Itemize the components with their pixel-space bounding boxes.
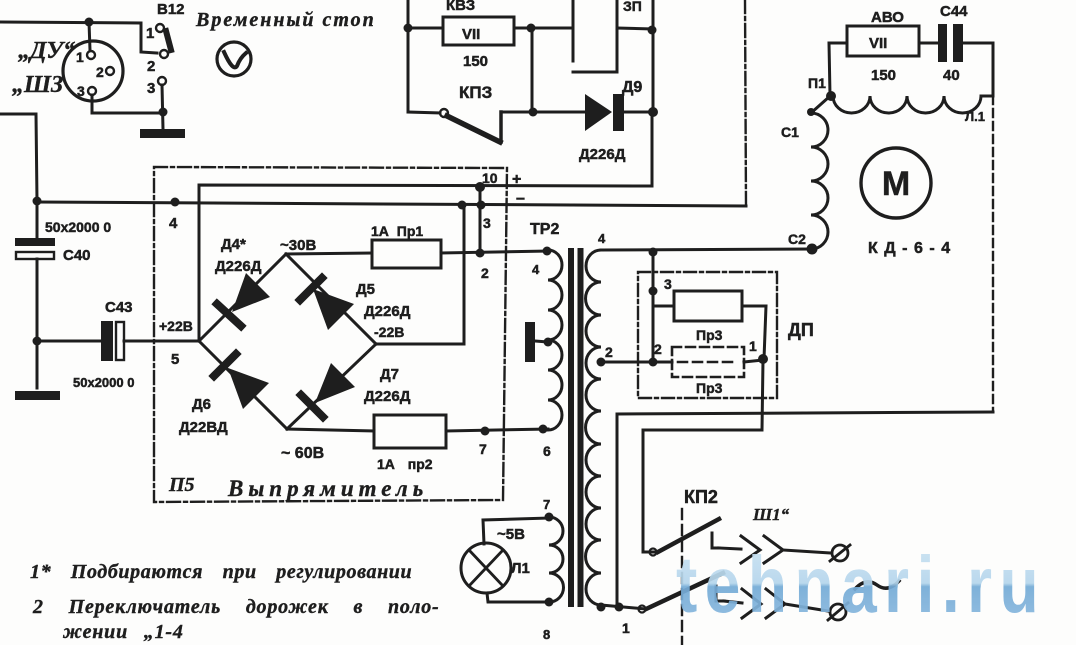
svg-text:КПЗ: КПЗ [459,83,492,102]
node A junction on top wire [85,18,94,27]
wire C43 left lead [37,340,101,343]
svg-text:1А пр2: 1А пр2 [377,456,433,472]
terminal 3 dot right [477,201,486,210]
wire terminal link 10-3-2 [479,187,482,253]
wire KV3 node down to switch KP3 [531,28,534,112]
svg-text:П1: П1 [808,75,826,91]
resistor KV3 left vertical [407,0,410,112]
motor M [861,148,931,218]
svg-text:tehnari.ru: tehnari.ru [676,540,1046,629]
node bottom wire junction [615,603,624,612]
svg-text:2: 2 [605,344,613,360]
svg-text:ЗП: ЗП [623,0,642,14]
wire fuse Pr2 to pin 6 [446,429,548,431]
transformer pin6 dot [539,425,548,434]
fuse Pr2 [374,415,446,448]
diode D9 [585,94,624,131]
svg-text:Д226Д: Д226Д [579,146,626,163]
node ground junction [159,108,168,117]
switch KP2 link dashed [681,509,683,645]
tap2 dot [597,358,606,367]
wire Sh1 upper to terminal [783,550,831,553]
capacitor C40 top plate [15,238,55,246]
capacitor C44 right plate [953,24,963,62]
ground bar C40 [15,391,60,400]
boundary dash line x745 [745,0,746,206]
svg-text:8: 8 [543,627,550,642]
terminal circle lower [830,604,846,620]
wire bridge bottom to fuse Pr2 [287,429,374,431]
svg-text:+: + [512,171,521,188]
wire KV3 left lead [408,27,443,30]
terminal 2 dot [476,249,485,258]
capacitor C43 left plate [101,321,113,361]
svg-text:40: 40 [943,67,960,84]
switch KP3 blade [447,116,500,142]
svg-text:КВЗ: КВЗ [446,0,475,14]
svg-text:В12: В12 [157,1,185,18]
terminal 10 dot [475,182,485,192]
resistor AVO [847,26,919,56]
switch KP3 contact [499,112,503,142]
svg-text:2 Переключатель дорожек в п: 2 Переключатель дорожек в поло- [32,596,440,618]
connector DU Sh3 body [63,41,123,101]
svg-text:~5В: ~5В [497,526,525,543]
svg-text:7: 7 [543,497,550,512]
bridge arm top-left [199,254,286,341]
node DP branch [649,248,658,257]
svg-text:3: 3 [77,83,85,99]
connector pin 1 [87,51,95,59]
solenoid ZP box [573,0,617,72]
svg-text:4: 4 [169,215,178,232]
transformer TR2 core right bar [578,248,584,607]
diode D6 [214,354,269,409]
svg-text:М: М [882,165,910,203]
transformer TR2 secondary winding [586,250,601,605]
switch KP2 upper pivot [650,549,657,556]
connector Sh1 lower arrows [742,589,785,618]
ground bar B12 [140,129,185,138]
node C1 top [807,108,815,116]
svg-text:Д5: Д5 [356,281,375,298]
svg-text:150: 150 [463,53,488,70]
motor winding C1-C2 vertical [811,113,828,249]
svg-text:Д226Д: Д226Д [364,303,411,320]
node pin1 [597,603,606,612]
fuse Pr1 [372,240,441,268]
svg-text:150: 150 [871,67,896,84]
wire terminal1 down to KP2 upper [643,360,763,552]
svg-text:2: 2 [147,58,155,75]
fuse Pr3 main [674,291,742,321]
svg-text:Д22ВД: Д22ВД [179,419,228,436]
switch B12 contact 3 [158,77,166,85]
svg-text:2: 2 [654,341,662,357]
wire A from C44 line to KP2 bottom [617,412,993,607]
svg-text:Ш1“: Ш1“ [752,505,790,524]
svg-text:С40: С40 [63,247,91,264]
svg-text:1: 1 [749,338,757,354]
panel DP dash-dot box [638,272,777,398]
wire pin7 to lamp [483,518,549,544]
node P1 [826,91,836,101]
wire fuse Pr3 to terminal 1 [742,306,766,359]
wire AVO to C44 [919,42,938,45]
wire screen to tap5 [535,341,548,342]
svg-text:4: 4 [598,231,606,246]
svg-text:КП2: КП2 [684,487,718,507]
node KV3 left [404,24,413,33]
svg-text:Д9: Д9 [622,79,642,96]
svg-text:жении „1-4: жении „1-4 [62,621,184,643]
svg-text:+22В: +22В [159,318,193,334]
switch B12 contact 1 [156,24,164,32]
switch KP2 lower pivot [639,606,646,613]
wire C44 to corner [963,43,993,96]
svg-text:Д6: Д6 [192,396,211,413]
lamp winding pin8 dot [545,598,554,607]
svg-text:50х2000 0: 50х2000 0 [45,219,111,235]
lamp winding pin7 dot [545,513,554,522]
wire connector pin3 to ground node [92,95,163,113]
wire plus bus from bridge left corner up and right [199,112,652,341]
wire fuse Pr1 to pin 4 [441,251,548,253]
wire top-left mains to B12 [0,22,157,53]
switch B12 contact 2 [160,50,168,58]
node KP3 right [529,108,538,117]
svg-text:АВО: АВО [871,9,904,26]
lamp L1 [461,543,511,593]
wire C43 right lead to bridge [124,340,199,343]
svg-text:Д7: Д7 [380,366,399,383]
svg-text:~30В: ~30В [280,237,316,254]
terminal 7 dot [481,427,490,436]
node C43 junction [33,337,42,346]
wire D9 to node [624,111,652,114]
svg-text:Д226Д: Д226Д [364,388,411,405]
wire DP vertical x653 [652,252,655,362]
switch B12 blade [166,31,171,50]
connector pin 3 [88,87,96,95]
capacitor C44 left plate [938,24,947,62]
svg-text:VII: VII [462,26,480,43]
svg-text:2: 2 [481,265,489,281]
clock symbol [217,42,251,76]
wire minus branch from bridge right corner [376,205,464,344]
svg-text:С2: С2 [788,231,806,247]
svg-text:ДП: ДП [788,320,814,340]
svg-text:Пр3: Пр3 [696,380,723,396]
svg-text:2: 2 [96,64,104,80]
wire ZP leads [617,28,652,29]
node D9 cathode [648,107,658,117]
fuse Pr3 spare dashed [672,347,744,377]
svg-text:10: 10 [482,170,498,186]
wire tap2 to spare fuse [601,361,672,364]
svg-text:VII: VII [869,35,887,52]
switch KP2 upper contact [712,533,719,548]
wire node A down to connector pin 1 [89,22,90,50]
svg-text:50х2000 0: 50х2000 0 [73,375,134,390]
bridge arm top-right [286,254,376,344]
svg-text:3: 3 [664,276,672,292]
svg-text:„ШЗ: „ШЗ [12,72,63,98]
transformer tap 5 dot [544,338,553,347]
wire L1 end [981,95,993,98]
motor winding L1 horizontal [833,96,981,113]
svg-text:1: 1 [146,25,154,42]
svg-text:Пр3: Пр3 [696,327,723,343]
node C2 [807,244,818,255]
node fuse Pr3 branch [649,287,658,296]
svg-text:Д226Д: Д226Д [215,258,262,275]
svg-text:П5: П5 [168,474,195,496]
wire KP2 lower to Sh1 [724,601,742,603]
transformer lamp winding [549,517,564,602]
switch KP3 pivot [440,109,448,117]
svg-text:ТР2: ТР2 [530,221,559,238]
svg-text:3: 3 [147,80,155,97]
wire KP2 upper to Sh1 [719,548,741,549]
wire secondary pin1 to KP2 lower [601,605,646,609]
svg-text:-22В: -22В [374,324,404,340]
terminal 4 dot [171,198,180,207]
transformer TR2 core left bar [568,248,574,607]
wire C1 top to P1 [811,97,829,113]
tilde mark [855,581,899,589]
svg-text:С1: С1 [781,124,799,140]
svg-text:Выпрямитель: Выпрямитель [227,476,428,501]
wire KV3 right lead [514,27,573,30]
node 2 dot [649,358,658,367]
svg-text:5: 5 [171,351,179,368]
wire bridge top to fuse Pr1 [286,253,372,254]
capacitor C43 right plate [116,322,124,360]
svg-text:КД-6-4: КД-6-4 [868,240,957,257]
switch KP2 lower blade [646,573,723,609]
switch KP2 lower contact [716,586,724,601]
diode D7 [301,363,355,417]
wire KP3 left [408,112,440,113]
svg-text:Временный стоп: Временный стоп [195,9,376,31]
bridge arm bottom-right [287,344,376,429]
svg-text:1: 1 [622,620,630,636]
node C40 top junction [33,197,42,206]
wire spare fuse to terminal 1 [744,360,763,362]
dashed line right x993 [992,96,994,412]
svg-text:Л.1: Л.1 [965,109,985,124]
switch KP2 upper blade [658,519,719,552]
svg-text:С44: С44 [940,3,968,20]
wire KP3 to D9 [501,111,585,114]
wire left edge lower [0,114,37,201]
bridge arm bottom-left [199,341,287,429]
connector Sh1 upper arrows [741,536,783,563]
wire C40 leads [36,206,39,388]
svg-text:Д4*: Д4* [221,236,246,253]
svg-text:–: – [516,190,525,207]
transformer TR2 primary winding [548,250,562,430]
wire ZP node vertical [652,0,655,112]
wire B12 contact3 down [162,85,163,129]
svg-text:1: 1 [76,49,84,65]
svg-text:6: 6 [543,443,551,459]
resistor KV3 [443,17,514,45]
wire minus bus y203 [37,202,746,206]
terminal circle upper [832,545,848,561]
wire to fuse Pr3 [653,291,674,306]
svg-text:Л1: Л1 [511,560,530,577]
svg-text:~ 60В: ~ 60В [281,445,324,462]
diode D4 [217,273,270,326]
terminal 3 dot left [458,201,467,210]
svg-text:7: 7 [479,441,487,457]
terminal 1 dot [758,354,768,364]
screen bar [525,322,535,362]
wire secondary pin4 to C2 node [601,249,812,250]
panel P5 dash-dot box [154,167,507,502]
diode D5 [300,278,354,330]
svg-text:1* Подбираются при регулир: 1* Подбираются при регулировании [30,561,412,583]
transformer pin4 dot [543,247,552,256]
svg-text:С43: С43 [105,299,133,316]
capacitor C40 bottom plate [16,252,54,259]
wire lamp bottom to pin8 [487,593,549,602]
wire AVO left lead [829,43,847,95]
svg-text:4: 4 [532,262,540,277]
svg-text:1А Пр1: 1А Пр1 [371,223,423,239]
node KV3 right [527,24,536,33]
node ZP right [648,26,657,35]
connector pin 2 [106,67,114,75]
svg-text:3: 3 [483,215,491,231]
svg-text:„ДУ“: „ДУ“ [18,38,75,64]
wire Sh1 lower to terminal [785,604,828,611]
